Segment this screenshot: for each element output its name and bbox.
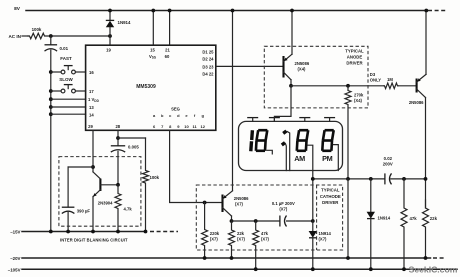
transistor Q2 2N5086 anode driver <box>284 9 310 88</box>
label AM <box>294 154 305 163</box>
wire digit3 cathode to driver diode <box>308 145 313 221</box>
svg-text:390 µF: 390 µF <box>77 208 91 213</box>
blanking circuit dashed box <box>59 157 141 227</box>
wire pin 19 from AC line <box>109 36 111 45</box>
svg-text:0.02: 0.02 <box>384 156 393 161</box>
digit 8 first <box>256 130 267 151</box>
capacitor 390 uF <box>62 167 93 233</box>
capacitor 0.01 <box>45 36 69 71</box>
digit 8 third <box>322 130 333 151</box>
svg-text:2N5086: 2N5086 <box>409 100 424 105</box>
svg-text:ONLY: ONLY <box>370 78 381 83</box>
wire anode driver to display pin <box>274 86 291 122</box>
svg-text:INTER DIGIT BLANKING CIRCUIT: INTER DIGIT BLANKING CIRCUIT <box>60 238 128 243</box>
capacitor 0.1 uF 200V <box>272 201 313 227</box>
wire pin 29 to blanking collector <box>91 130 95 172</box>
svg-text:FAST: FAST <box>60 56 72 61</box>
svg-text:100k: 100k <box>150 175 160 180</box>
capacitor 0.005 <box>111 145 140 185</box>
label PM <box>322 154 332 163</box>
svg-text:(X4): (X4) <box>354 98 363 103</box>
svg-text:17: 17 <box>89 89 94 94</box>
svg-text:270k: 270k <box>354 92 364 97</box>
svg-text:16: 16 <box>89 70 94 75</box>
wire pin 21 to 8V <box>168 9 172 46</box>
wire bias line horizontal <box>311 177 428 181</box>
digit 8 second <box>297 130 308 151</box>
IC U1 MM5309 <box>86 45 216 130</box>
diode 1N914 cathode driver <box>309 219 332 271</box>
svg-text:(X7): (X7) <box>210 237 219 242</box>
label typical anode driver <box>345 48 364 65</box>
node -15V rail <box>10 230 146 235</box>
wire pin 13 <box>49 105 86 109</box>
diode 1N914 right <box>367 179 391 271</box>
svg-text:29: 29 <box>88 124 93 129</box>
resistor 22k cathode <box>229 221 246 260</box>
switch FAST <box>49 56 86 74</box>
svg-text:TYPICAL: TYPICAL <box>345 48 364 53</box>
svg-text:0.005: 0.005 <box>128 145 139 150</box>
diode 1N914 input clamp <box>106 9 131 36</box>
wire 8V rail dashed continuation <box>428 10 446 12</box>
transistor Q4 2N5086 cathode driver <box>223 191 250 223</box>
svg-text:SLOW: SLOW <box>59 77 73 82</box>
svg-text:TYPICAL: TYPICAL <box>321 188 340 193</box>
svg-text:1N914: 1N914 <box>319 231 332 236</box>
wire colon upper cathode <box>287 131 290 170</box>
svg-text:D4 22: D4 22 <box>202 72 214 77</box>
wire segment pin 8 to cathode driver base <box>170 130 223 204</box>
svg-text:AC IN: AC IN <box>8 34 21 39</box>
wire pin 15 VSS to 8V <box>151 9 155 46</box>
resistor 1M <box>384 77 398 89</box>
svg-text:D3 23: D3 23 <box>202 64 214 69</box>
svg-text:15: 15 <box>150 48 155 53</box>
svg-text:8V: 8V <box>14 6 21 12</box>
svg-text:1N914: 1N914 <box>118 20 131 25</box>
transistor Q3 2N5086 D3 anode <box>409 9 428 105</box>
svg-text:200V: 200V <box>383 161 393 166</box>
wire 28-node to 100k <box>118 137 146 139</box>
wire -20V rail dashed continuation <box>433 257 446 259</box>
wire -15V rail dashed continuation <box>150 231 178 233</box>
svg-text:SEG: SEG <box>171 107 180 112</box>
wire digit2 cathode stub <box>267 150 272 154</box>
svg-text:12: 12 <box>200 124 205 129</box>
svg-text:CATHODE: CATHODE <box>320 194 341 199</box>
cathode label partition dashed <box>316 185 318 250</box>
svg-text:–105V: –105V <box>8 267 21 272</box>
display DS1 four digit <box>239 121 343 170</box>
resistor 100k input <box>28 27 51 39</box>
wire anode collector bus <box>291 84 384 88</box>
svg-text:SeekIC.com: SeekIC.com <box>409 265 458 275</box>
capacitor 0.02 200V <box>383 156 393 184</box>
svg-text:(X7): (X7) <box>261 237 270 242</box>
svg-text:DRIVER: DRIVER <box>322 200 339 205</box>
svg-text:0.01: 0.01 <box>60 46 69 51</box>
wire 270k down to -20V <box>346 179 350 260</box>
svg-text:28: 28 <box>115 124 120 129</box>
wire Q3 collector down <box>425 98 427 209</box>
watermark <box>409 265 458 275</box>
svg-text:MM5309: MM5309 <box>136 84 156 90</box>
svg-text:ANODE: ANODE <box>347 55 363 60</box>
wire colon lower cathode <box>284 143 287 170</box>
svg-text:22k: 22k <box>237 231 245 236</box>
cathode driver dashed box <box>196 185 342 250</box>
resistor 22k right <box>423 200 438 260</box>
wire pin 28 to 0.005 cap <box>116 130 120 145</box>
svg-text:(X7): (X7) <box>235 202 244 207</box>
svg-text:D2 24: D2 24 <box>202 57 214 62</box>
svg-text:–15V: –15V <box>10 230 20 235</box>
label D3 ONLY <box>370 72 381 83</box>
svg-text:D1 25: D1 25 <box>202 50 214 55</box>
svg-text:(X7): (X7) <box>319 237 328 242</box>
svg-text:1M: 1M <box>387 77 393 82</box>
svg-text:2N5086: 2N5086 <box>234 196 249 201</box>
label inter digit blanking circuit <box>60 238 128 243</box>
svg-text:13: 13 <box>89 105 94 110</box>
node AC IN <box>8 34 28 39</box>
colon <box>282 131 287 145</box>
wire AC line to diode <box>49 34 112 38</box>
resistor 270k <box>345 86 364 179</box>
digit 1 <box>251 130 253 151</box>
svg-text:(X7): (X7) <box>237 237 246 242</box>
resistor 47k cathode <box>253 221 270 271</box>
svg-text:1N914: 1N914 <box>378 215 391 220</box>
svg-text:4.7k: 4.7k <box>124 206 133 211</box>
node -20V rail <box>10 256 430 261</box>
transistor Q1 2N3904 <box>91 172 120 234</box>
svg-text:10: 10 <box>184 124 189 129</box>
svg-text:47k: 47k <box>261 231 269 236</box>
wire 1M to right transistor base <box>398 85 417 87</box>
svg-text:1 VDD: 1 VDD <box>88 97 100 103</box>
display anode leads <box>247 118 335 122</box>
svg-text:PM: PM <box>322 154 332 163</box>
node 8V supply rail <box>14 6 426 12</box>
svg-text:21: 21 <box>165 48 170 53</box>
svg-text:D3: D3 <box>370 72 376 77</box>
svg-text:AM: AM <box>294 154 305 163</box>
resistor 4.7k blanking <box>115 185 132 234</box>
wire 8V rail down to cathode emitter <box>231 9 235 191</box>
svg-text:14: 14 <box>89 112 94 117</box>
wire D3 pin 23 to anode driver base <box>216 65 284 67</box>
anode driver dashed box <box>264 46 368 108</box>
svg-text:DRIVER: DRIVER <box>346 61 363 66</box>
wire pin 14 <box>49 112 86 116</box>
node -105V rail <box>8 267 457 272</box>
svg-text:60: 60 <box>165 54 170 59</box>
wire collector to cap <box>232 219 280 223</box>
svg-text:2N5086: 2N5086 <box>295 61 310 66</box>
svg-text:19: 19 <box>106 48 111 53</box>
wire pin 1 VDD <box>49 97 86 101</box>
svg-text:22k: 22k <box>430 216 438 221</box>
svg-text:–20V: –20V <box>10 256 20 261</box>
resistor 220k cathode base <box>202 203 220 260</box>
svg-text:(X7): (X7) <box>279 206 288 211</box>
svg-text:220k: 220k <box>210 231 220 236</box>
switch SLOW <box>49 77 86 93</box>
resistor 47k right <box>401 179 417 271</box>
svg-text:0.1 µF 200V: 0.1 µF 200V <box>272 201 295 206</box>
resistor 100k blanking <box>143 138 160 233</box>
svg-text:(X4): (X4) <box>298 66 307 71</box>
label typical cathode driver <box>320 188 341 205</box>
svg-text:47k: 47k <box>410 216 418 221</box>
svg-text:2N3904: 2N3904 <box>98 200 113 205</box>
svg-text:100k: 100k <box>32 27 42 32</box>
wire left bus vertical <box>49 71 53 234</box>
svg-text:VSS: VSS <box>149 54 156 60</box>
wire digit4 cathode stub <box>333 145 338 171</box>
